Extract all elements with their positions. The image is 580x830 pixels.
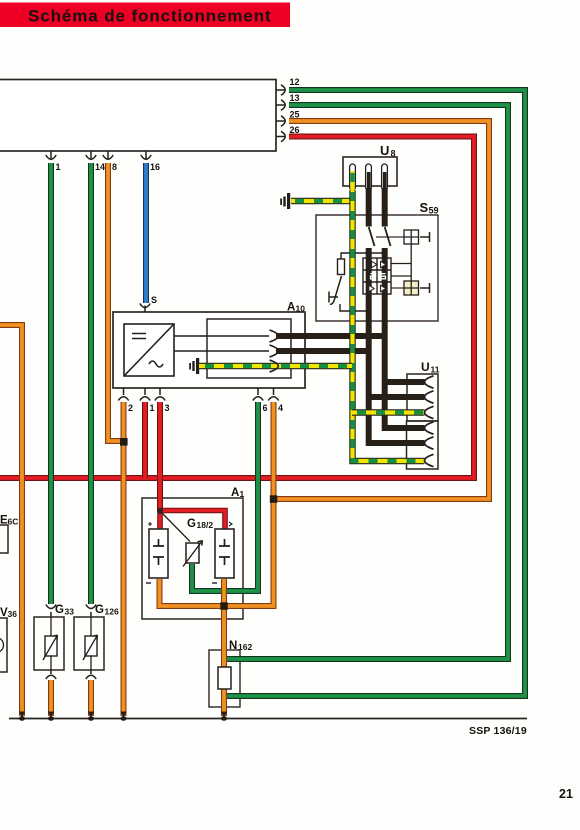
junction pin8/pin2 orange — [120, 438, 128, 446]
control unit J-box (clipped left) — [0, 80, 276, 152]
wire: blue pin16 down to A10 pin S — [143, 163, 149, 303]
control unit right pin 13 — [276, 100, 285, 110]
U8 pin sleeve 1 — [350, 164, 356, 190]
svg-text:Schéma de fonctionnement: Schéma de fonctionnement — [28, 7, 272, 26]
A10 socket fork row1 — [270, 330, 279, 342]
S59 detent glyph row3 left — [369, 285, 375, 291]
wire: orange A10 pin4 down-left-up to left sensor — [160, 402, 274, 606]
G33 NTC resistor — [45, 636, 57, 656]
S59 upper terminal box — [404, 230, 419, 244]
wire: green/yellow A10 ground output — [199, 363, 352, 369]
S59 switch lever A — [369, 227, 375, 246]
svg-text:N: N — [229, 640, 237, 652]
svg-text:162: 162 — [238, 642, 252, 652]
svg-text:A: A — [231, 487, 239, 499]
sensor G33 box — [34, 617, 64, 670]
sensor G126 box — [74, 617, 104, 670]
blower V36 box (clipped) — [0, 618, 7, 672]
right sensor arrow tick — [229, 522, 232, 526]
wire: U8 pin2 black down to S59 switch — [367, 172, 371, 190]
wire: green/yellow branch to U11 row3 — [352, 409, 425, 415]
S59 stub row3 to lower terminal box — [391, 287, 404, 289]
S59 detent glyph row1 right — [381, 261, 387, 267]
A10 top pin S — [140, 304, 150, 313]
A10 thin line row1 — [174, 335, 269, 337]
wire: black A below switch through detent to U11 row5 — [369, 248, 425, 443]
S59 line switch to terminal box — [376, 236, 404, 238]
S59 internal resistor — [338, 259, 345, 275]
wire: black branch to U11 row2 — [369, 394, 425, 400]
inverter A10 box — [113, 312, 305, 388]
svg-text:S: S — [420, 200, 429, 215]
bus arrow + dot G126 — [88, 712, 94, 719]
svg-text:3: 3 — [165, 403, 170, 413]
S59 switch lever left — [330, 276, 342, 304]
svg-text:16: 16 — [150, 162, 160, 172]
wire: thick black A10 output row1 — [276, 333, 385, 339]
control unit bottom pin 1 — [46, 151, 56, 159]
svg-text:59: 59 — [429, 206, 439, 216]
S59 stub row1 — [391, 263, 411, 265]
wire: orange G126 down to bus — [88, 680, 94, 716]
S59 upper T terminal — [420, 232, 430, 242]
A10 thin line row2 — [174, 350, 269, 352]
S59 detent glyph row3 mid bar — [375, 285, 377, 292]
left sensor minus mark — [146, 582, 151, 584]
right sensor glyphs — [219, 539, 230, 565]
V36 motor circle fragment — [0, 638, 4, 653]
U11 socket fork row5 — [425, 437, 434, 449]
S59 lower terminal box — [404, 281, 419, 295]
S59 switch lever B — [385, 227, 391, 246]
G18/2 arrow — [183, 541, 203, 567]
wire: red pin26 right-down-left long supply line — [0, 137, 474, 479]
control unit bottom pin 14 — [86, 151, 96, 159]
svg-text:2: 2 — [128, 403, 133, 413]
svg-text:G: G — [95, 604, 104, 616]
G33 top pin — [46, 605, 56, 618]
svg-text:6C: 6C — [8, 517, 19, 527]
svg-text:S: S — [151, 295, 157, 305]
svg-text:1: 1 — [150, 403, 155, 413]
A10 bottom pin 6 — [253, 388, 263, 401]
wire: red A1 internal to both sensors — [160, 511, 225, 530]
G33 internal leads — [50, 617, 52, 670]
U11 socket fork row6 — [425, 454, 434, 466]
svg-text:14: 14 — [95, 162, 105, 172]
S59 vertical link line — [410, 244, 412, 281]
S59 lower T terminal — [420, 283, 430, 293]
A10 output sub-box — [207, 319, 291, 378]
svg-text:6: 6 — [263, 403, 268, 413]
G18/2 pointer line — [161, 512, 190, 542]
S59 detent glyph row2 right — [381, 274, 386, 279]
svg-text:A: A — [287, 302, 295, 314]
A1 right temperature sensor — [215, 529, 234, 578]
U8 ground symbol — [280, 193, 290, 209]
svg-text:11: 11 — [431, 365, 440, 375]
wire: red A10 pin1 down to supply line — [142, 402, 148, 478]
A10 bottom pin 2 — [118, 388, 128, 401]
S59 detent box — [363, 258, 391, 294]
G126 bottom pin — [86, 670, 96, 679]
svg-text:36: 36 — [8, 609, 18, 619]
wire: orange G33 down to bus — [48, 680, 54, 716]
wire: green pin14 down to G126 — [88, 163, 94, 604]
U11 socket fork row1 — [425, 376, 434, 388]
wire: black B below switch through detent to U11 row4 — [385, 248, 425, 428]
G33 NTC arrow — [43, 635, 58, 660]
svg-text:10: 10 — [296, 304, 306, 314]
wire: green/yellow ground U8 area — [291, 198, 352, 204]
bus arrow + dot G33 — [48, 712, 54, 719]
svg-text:U: U — [421, 360, 430, 374]
svg-text:33: 33 — [65, 607, 75, 617]
U8 pin sleeve 3 — [382, 164, 388, 190]
wire: orange pin25 right-down-left to pin4 node — [276, 121, 489, 499]
svg-text:G: G — [55, 604, 64, 616]
control unit bottom pin 8 — [103, 151, 113, 159]
G126 top pin — [86, 605, 96, 618]
svg-text:21: 21 — [559, 787, 573, 801]
svg-text:8: 8 — [112, 162, 117, 172]
S59 contact symbol — [329, 292, 338, 303]
A10 bottom pin 3 — [155, 388, 165, 401]
svg-text:8: 8 — [391, 149, 396, 159]
connector U11 upper box — [407, 374, 438, 421]
ground bus line — [9, 718, 527, 720]
A10 bottom pin 1 — [140, 388, 150, 401]
svg-text:SSP 136/19: SSP 136/19 — [469, 725, 527, 737]
wire: black branch to U11 row1 — [385, 379, 425, 385]
wire: orange pin8 down, joins pin2 wire — [108, 163, 121, 441]
svg-text:12: 12 — [290, 77, 300, 87]
G126 internal leads — [90, 617, 92, 670]
A10 ground symbol — [189, 358, 199, 374]
G33 bottom pin — [46, 670, 56, 679]
N162 resistor element — [218, 667, 231, 689]
right sensor minus mark — [212, 582, 217, 584]
S59 detent glyph row2 left — [371, 274, 376, 279]
junction pin25/pin4 orange — [270, 495, 278, 503]
wire: orange A10 pin2 down to bus — [121, 402, 127, 716]
G126 NTC arrow — [83, 635, 98, 660]
svg-text:G: G — [187, 518, 196, 530]
svg-text:13: 13 — [290, 93, 300, 103]
wire: green pin1 down to G33 — [48, 163, 54, 604]
component E6C box (clipped) — [0, 525, 8, 553]
title bar — [0, 3, 290, 28]
wire: thick black A10 output row2 — [276, 348, 369, 354]
control unit right pin 12 — [276, 85, 285, 95]
S59 internal resistor top lead — [341, 253, 385, 259]
svg-text:1: 1 — [240, 489, 245, 499]
A10 socket fork row2 — [270, 345, 279, 357]
svg-text:U: U — [380, 143, 389, 158]
wire: green pin12 right-down-left to N162 bottom — [226, 90, 525, 696]
G18/2 photo resistor — [186, 543, 199, 563]
G126 NTC resistor — [85, 636, 97, 656]
relay box A1 — [142, 498, 243, 619]
bus arrow + dot N162 — [221, 712, 227, 719]
U11 socket fork row3 — [425, 406, 434, 418]
bus arrow + dot A10 pin2 — [120, 712, 126, 719]
left sensor plus tick — [148, 522, 152, 526]
wire: red A10 pin3 down into A1 — [157, 402, 163, 512]
left sensor glyphs — [153, 539, 164, 565]
connector U8 box — [343, 157, 397, 186]
svg-text:18/2: 18/2 — [197, 520, 214, 530]
heater regulator N162 box — [209, 650, 240, 707]
S59 detent glyph row1 right bar — [378, 261, 380, 268]
control unit right pin 26 — [276, 131, 285, 141]
A10 socket fork row3 — [270, 360, 279, 372]
U11 socket fork row2 — [425, 391, 434, 403]
A10 inverter symbol — [124, 324, 174, 376]
S59 detent glyph row1 left — [372, 261, 378, 267]
junction red A1 — [158, 509, 164, 515]
connector U11 lower box — [407, 421, 439, 469]
svg-text:1: 1 — [56, 162, 61, 172]
wire: green A10 pin6 down to G18/2 — [192, 402, 258, 591]
U11 socket fork row4 — [425, 422, 434, 434]
junction orange at A1 bottom — [220, 602, 228, 610]
U8 pin sleeve 2 — [366, 164, 372, 190]
bus arrow + dot margin orange — [19, 712, 25, 719]
wire: U8 pin3 black down to S59 switch — [383, 172, 387, 190]
wire: green/yellow main vertical U8 pin1 to U11 row6 — [353, 171, 425, 461]
control unit right pin 25 — [276, 116, 285, 126]
S59 detent glyph row3 right — [381, 285, 387, 291]
A10 bottom pin 4 — [268, 388, 278, 401]
S59 internal bottom lead to wire A — [340, 304, 368, 311]
A1 left temperature sensor — [149, 529, 168, 578]
svg-text:126: 126 — [105, 607, 119, 617]
wire: orange right sensor down through N162 to bus — [221, 579, 227, 716]
control unit bottom pin 16 — [141, 151, 151, 159]
svg-text:4: 4 — [278, 403, 283, 413]
switch unit S59 box — [316, 215, 438, 321]
S59 stub row2 — [391, 275, 411, 277]
wire: green pin13 right-down-left to N162 top — [226, 105, 508, 659]
wire: orange from left margin down to bus — [0, 325, 22, 716]
